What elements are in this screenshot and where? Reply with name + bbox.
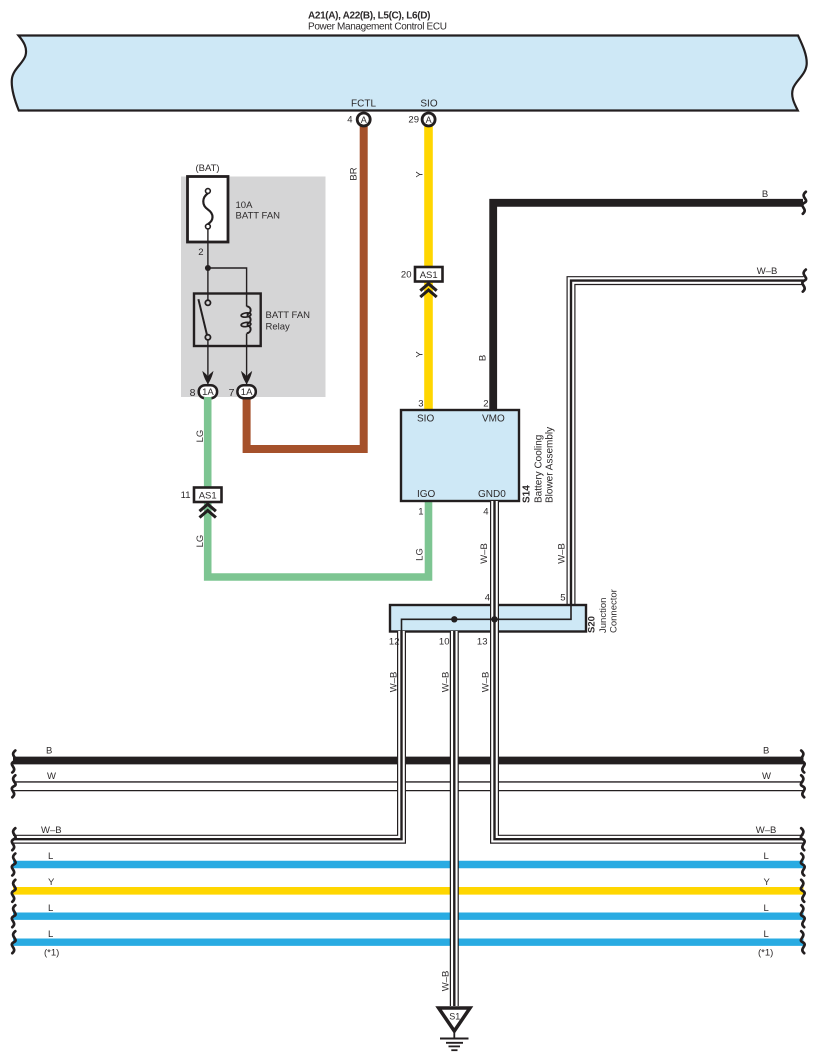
svg-text:AS1: AS1 [420,270,438,281]
svg-text:Relay: Relay [266,322,291,333]
torn mark L2 right [801,905,805,927]
svg-text:SIO: SIO [420,99,437,110]
junction block gray panel [181,177,326,398]
svg-text:20: 20 [401,270,412,281]
connector A pin 4 [357,113,370,126]
torn mark W right [801,775,805,797]
node dot pin4/13 [491,616,497,622]
svg-text:S20: S20 [587,616,598,633]
S14 side label [522,427,556,503]
wire relay coil to pin 7 [246,346,248,384]
svg-text:W–B: W–B [479,543,490,564]
svg-text:W: W [762,771,771,782]
torn mark L2 left [12,905,16,927]
svg-text:L: L [764,851,769,862]
svg-text:L: L [48,929,53,940]
connector 1A pin 7 [237,385,255,398]
svg-text:Y: Y [764,877,771,888]
connector 1A pin 8 [199,385,217,398]
connector AS1 (20) on Y wire [415,267,443,282]
wire BR (FCTL pin4 to relay pin7) [247,124,364,449]
ECU block A21/A22/L5/L6 Power Management Control ECU [12,36,807,111]
svg-text:4: 4 [485,593,490,604]
svg-text:B: B [46,746,52,757]
wire B bus (bottom band) [13,757,804,765]
svg-text:(*1): (*1) [758,948,773,959]
S20 junction connector bar [390,605,586,632]
ground S1 [439,1008,470,1050]
svg-text:8: 8 [190,387,196,399]
svg-text:W–B: W–B [389,672,400,693]
svg-text:S1: S1 [449,1012,460,1022]
svg-text:W–B: W–B [41,825,62,836]
svg-text:W–B: W–B [557,543,568,564]
svg-text:BATT FAN: BATT FAN [236,211,281,222]
chevrons under AS1 (20) [420,284,436,297]
svg-text:W–B: W–B [441,672,452,693]
wire L bus 2 [13,913,804,920]
svg-text:Blower Assembly: Blower Assembly [545,427,556,503]
torn mark W-B left [12,828,16,850]
wire Y (SIO pin29 to S14 SIO) [424,124,433,410]
svg-text:L: L [48,851,53,862]
wire W bus (bottom band) [13,781,804,791]
svg-text:Battery Cooling: Battery Cooling [534,435,545,503]
wire branch to relay coil [208,268,247,294]
svg-text:3: 3 [418,399,423,410]
svg-text:VMO: VMO [482,414,505,425]
svg-text:LG: LG [415,548,426,561]
relay BATT FAN Relay box [194,294,261,347]
svg-text:1A: 1A [241,387,253,398]
svg-text:B: B [762,189,768,200]
arrow pin 8 [202,371,213,384]
svg-text:5: 5 [560,593,565,604]
svg-text:29: 29 [408,115,419,126]
wire W-B (S20 pin12 to left bus) [13,631,402,839]
svg-text:S14: S14 [522,485,533,503]
wire W-B (right edge to S20 pin 5) [571,281,804,606]
svg-text:11: 11 [181,490,191,501]
torn mark Y left [12,880,16,902]
svg-text:(BAT): (BAT) [196,163,220,174]
svg-text:Y: Y [414,351,425,358]
wire relay switch to pin 8 [207,339,209,384]
S20 internal bus [402,606,572,631]
svg-text:W: W [47,771,56,782]
torn end mark B wire [802,192,806,214]
torn mark W-B right [801,828,805,850]
torn mark Y right [801,880,805,902]
svg-text:12: 12 [389,637,400,648]
svg-text:GND0: GND0 [478,489,506,500]
torn mark L3 right [801,931,805,953]
svg-text:2: 2 [483,399,488,410]
wire Y bus [13,887,804,895]
svg-text:Y: Y [414,171,425,178]
svg-text:AS1: AS1 [199,490,217,501]
torn mark W left [12,775,16,797]
svg-text:10: 10 [439,637,450,648]
svg-text:1: 1 [418,507,423,518]
torn mark L1 right [801,854,805,876]
svg-text:LG: LG [195,535,206,548]
fuse element [203,189,212,229]
svg-text:Connector: Connector [609,589,620,633]
relay switch contact [198,299,210,340]
torn mark B right [801,751,805,773]
wire B (VMO to right edge) [493,203,803,410]
S14 Battery Cooling Blower Assembly box [401,410,519,501]
ECU title label [308,11,447,33]
svg-text:7: 7 [229,387,235,399]
svg-text:Y: Y [48,877,55,888]
svg-text:A21(A), A22(B), L5(C), L6(D): A21(A), A22(B), L5(C), L6(D) [308,11,430,22]
svg-text:B: B [763,746,769,757]
svg-text:4: 4 [483,507,488,518]
arrow pin 7 [241,371,252,384]
svg-text:A: A [361,115,367,125]
svg-text:Power Management Control ECU: Power Management Control ECU [308,22,447,33]
svg-text:13: 13 [477,637,488,648]
fuse value label 10A BATT FAN [236,200,281,222]
connector AS1 (11) on LG wire [194,488,222,503]
svg-text:B: B [478,355,489,361]
connector A pin 29 [422,113,435,126]
svg-text:1A: 1A [202,387,214,398]
S20 side label [587,589,620,633]
wire W-B (S20 pin10 to ground S1) [450,631,459,1006]
svg-text:Junction: Junction [598,598,609,633]
wire fuse to relay [207,229,209,300]
svg-text:W–B: W–B [757,266,778,277]
wire L bus 3 [13,939,804,946]
svg-text:BATT FAN: BATT FAN [266,310,311,321]
svg-text:L: L [764,903,769,914]
svg-text:W–B: W–B [481,672,492,693]
svg-text:4: 4 [347,115,352,126]
svg-text:BR: BR [349,167,360,180]
torn end mark W-B wire [802,270,806,292]
svg-text:FCTL: FCTL [351,99,376,110]
svg-text:2: 2 [198,247,203,258]
svg-text:W–B: W–B [440,971,451,992]
svg-text:A: A [426,115,432,125]
svg-text:LG: LG [195,430,206,443]
chevrons under AS1 (11) [200,504,216,517]
svg-text:10A: 10A [236,200,254,211]
node dot pin10 [451,616,457,622]
torn mark L3 left [12,931,16,953]
svg-text:IGO: IGO [417,489,436,500]
wire L bus 1 [13,861,804,868]
svg-text:L: L [764,929,769,940]
svg-text:L: L [48,903,53,914]
relay coil [241,294,251,347]
wire LG (pin 8 to S14 IGO) [208,397,429,577]
relay label [266,310,311,333]
junction node dot [205,265,211,271]
torn mark L1 left [12,854,16,876]
torn mark B left [12,751,16,773]
svg-text:SIO: SIO [417,414,434,425]
fuse 10A BATT FAN box [188,177,229,243]
svg-text:(*1): (*1) [44,948,59,959]
wire W-B (S14 GND0 through S20 pin4/pin13 to right bus) [495,501,804,839]
svg-text:W–B: W–B [756,825,777,836]
